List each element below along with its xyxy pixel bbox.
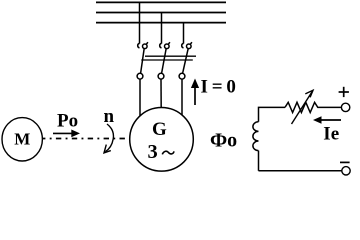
field winding coil	[253, 122, 259, 151]
plus sign	[339, 91, 349, 93]
rheostat adjustment arrow	[292, 90, 314, 124]
generator circle G	[130, 108, 194, 172]
svg-text:Ie: Ie	[323, 124, 339, 145]
wire drop from L1 to switch pole 1	[139, 2, 141, 43]
svg-text:3: 3	[148, 141, 158, 163]
switch pole 2 blade tip tick	[168, 42, 170, 44]
shaft dash-dot line	[40, 138, 133, 140]
switch pole 3 pivot circle	[179, 73, 185, 79]
Ie current arrow	[320, 119, 341, 121]
svg-text:I = 0: I = 0	[201, 77, 236, 98]
bus bar L3	[96, 22, 226, 24]
bus bar L1	[96, 1, 226, 3]
I=0 current arrow	[194, 87, 196, 105]
switch pole 1 blade tip tick	[146, 42, 148, 44]
svg-text:n: n	[104, 106, 115, 127]
svg-text:Po: Po	[57, 110, 78, 131]
switch pole 1 blade	[141, 48, 145, 73]
terminal circle plus	[341, 103, 349, 111]
switch pole 2 fixed contact hook	[160, 43, 162, 48]
switch pole 1 pivot circle	[137, 73, 143, 79]
bus bar L2	[96, 12, 226, 14]
switch pole 2 blade	[162, 48, 167, 73]
Po power-flow arrow	[53, 132, 73, 134]
svg-text:G: G	[152, 119, 167, 140]
switch pole 3 blade tip tick	[190, 42, 192, 44]
switch pole 2 pivot circle	[158, 73, 164, 79]
switch pole 2 blade tip circle	[165, 44, 170, 49]
switch pole 2 lead wire to generator	[160, 79, 162, 125]
svg-text:M: M	[14, 130, 30, 149]
field circuit bottom wire	[259, 170, 342, 172]
field circuit left wire below coil	[258, 151, 260, 171]
switch crossbar upper line	[145, 55, 196, 57]
motor circle M	[2, 118, 42, 161]
switch crossbar lower line	[141, 59, 193, 61]
switch pole 3 lead wire to generator	[181, 79, 183, 125]
terminal circle minus	[342, 167, 350, 175]
minus sign	[340, 161, 350, 163]
switch pole 1 blade tip circle	[143, 44, 148, 49]
switch pole 3 fixed contact hook	[182, 43, 184, 48]
field circuit top wire	[259, 107, 286, 121]
switch pole 1 lead wire to generator	[139, 79, 141, 125]
switch pole 3 blade	[183, 48, 189, 73]
switch pole 3 blade tip circle	[187, 44, 192, 49]
wire drop from L2 to switch pole 2	[161, 13, 163, 44]
svg-text:Фо: Фо	[210, 130, 237, 152]
rheostat resistor zigzag	[285, 102, 341, 112]
rotation arrow n	[105, 124, 113, 152]
wire drop from L3 to switch pole 3	[183, 23, 185, 44]
switch pole 1 fixed contact hook	[138, 43, 140, 48]
